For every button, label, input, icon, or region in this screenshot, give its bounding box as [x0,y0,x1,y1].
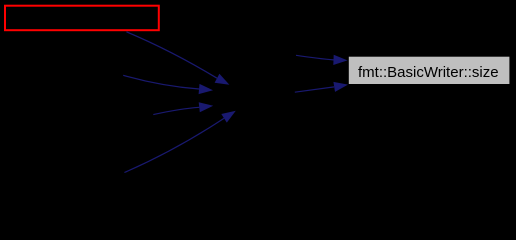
svg-text:fmt::BasicWriter::size: fmt::BasicWriter::size [358,64,499,81]
